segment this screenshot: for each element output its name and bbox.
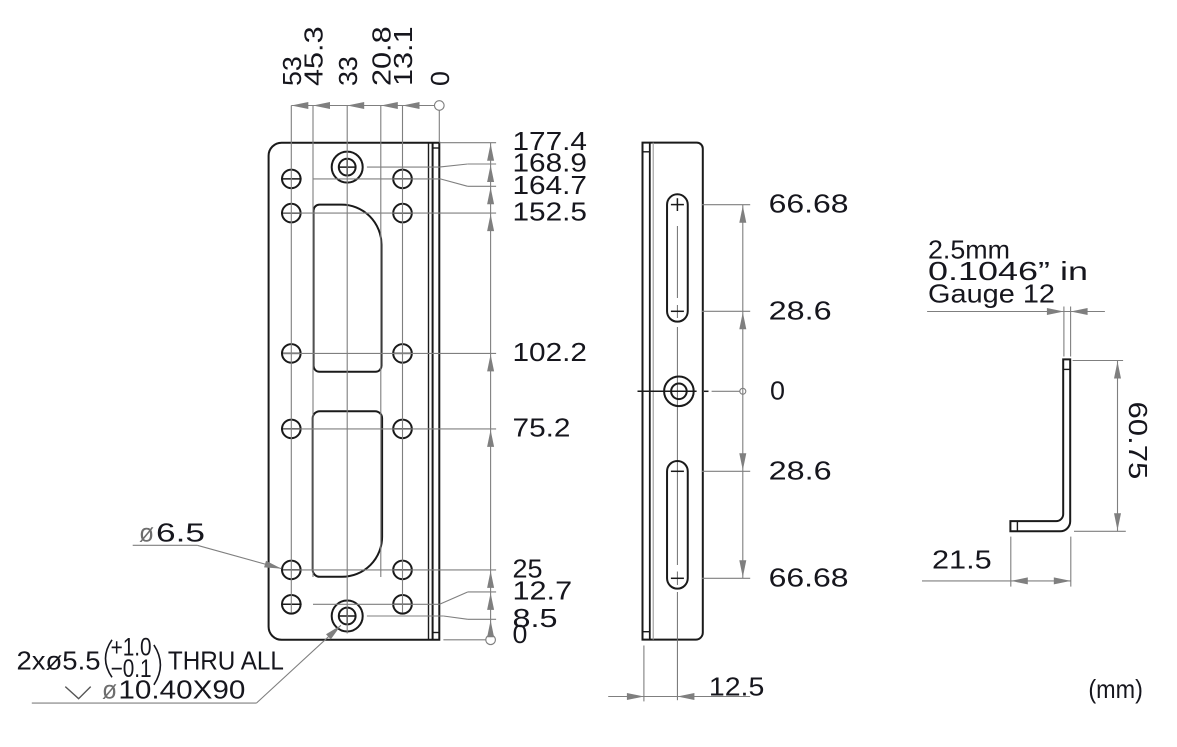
right ordinate origin circle (486, 635, 496, 645)
svg-text:ø: ø (139, 517, 154, 547)
top ordinate arrow at x=313.0 (313, 102, 330, 109)
svg-text:13.1: 13.1 (388, 26, 418, 86)
right ordinate arrow at y=213.1 (487, 214, 494, 231)
front view bend strip bottom cap mark (433, 632, 440, 634)
top ordinate extension line x=291.3 (290, 106, 292, 613)
countersink note leader line (256, 625, 341, 703)
top ordinate extension line x=313.0 (312, 106, 314, 578)
svg-text:10.40X90: 10.40X90 (118, 675, 245, 705)
svg-text:66.68: 66.68 (769, 189, 849, 219)
L-section leg end tick (1016, 521, 1018, 531)
svg-text:2xø5.5: 2xø5.5 (17, 646, 101, 676)
leader note ø6.5 landing line (133, 544, 198, 546)
side ordinate down arrow y=578.3 (739, 560, 746, 577)
side view vertical centerline (676, 226, 678, 298)
thickness left arrow (1047, 308, 1064, 315)
dimension 60.75 bottom extension (1074, 530, 1126, 532)
dimension 60.75 down arrow (1114, 513, 1121, 530)
side view outline (643, 143, 703, 640)
side view flange bottom cap mark (643, 631, 650, 633)
top ordinate arrow at x=380.8 (381, 102, 398, 109)
side view centerline to origin (712, 390, 740, 392)
svg-text:75.2: 75.2 (513, 412, 571, 442)
svg-text:28.6: 28.6 (769, 455, 832, 485)
thickness extension line right (1070, 307, 1072, 357)
side view lower slot (667, 461, 688, 589)
right ordinate arrow at y=164.0 (487, 165, 494, 182)
side view lower slot top cross (671, 470, 684, 472)
side ordinate up arrow y=204.7 (739, 206, 746, 223)
side ordinate up arrow y=311.3 (739, 312, 746, 329)
hole ø6.5 row3 col1 (282, 344, 301, 363)
side ordinate level line y=578.3 (702, 577, 750, 579)
dimension 21.5 left extension (1010, 537, 1012, 587)
hole ø6.5 row1 col2 (393, 170, 412, 189)
svg-text:66.68: 66.68 (769, 562, 849, 592)
hole ø6.5 row3 col2 (393, 344, 412, 363)
row line 8.5 (367, 615, 444, 617)
L-section outline (1010, 359, 1070, 531)
dimension 12.5 extension line (643, 646, 645, 702)
row line 25 (283, 569, 496, 571)
dimension 21.5 left arrow (1011, 577, 1028, 584)
dimension 60.75 top extension (1073, 360, 1124, 362)
svg-text:33: 33 (333, 56, 363, 86)
L-section top cap mark (1063, 368, 1070, 370)
side ordinate level line y=204.7 (702, 204, 750, 206)
countersink symbol (65, 687, 90, 699)
side ordinate dimension line (742, 205, 744, 579)
side view bend tangent line (652, 143, 654, 640)
right ordinate arrow at y=186.3 (487, 187, 494, 204)
right ordinate arrow at y=569.9 (487, 571, 494, 588)
side view lower slot bottom cross (671, 577, 684, 579)
side view center hole horizontal centerline (638, 390, 697, 392)
row line 102.2 (283, 352, 496, 354)
hole ø6.5 row4 col1 (282, 420, 301, 439)
thickness dimension line (927, 311, 1105, 313)
front view bend line (432, 143, 434, 640)
svg-text:THRU ALL: THRU ALL (168, 646, 284, 676)
hole ø6.5 row5 col1 (282, 561, 301, 580)
side view centerline dash (704, 390, 709, 392)
hole ø6.5 row6 col1 (282, 595, 301, 614)
top ordinate dimension line (291, 105, 434, 107)
svg-text:60.75: 60.75 (1123, 402, 1153, 480)
svg-text:102.2: 102.2 (513, 337, 588, 367)
dimension 21.5 line (922, 580, 1071, 582)
side ordinate down arrow y=471.3 (739, 453, 746, 470)
right ordinate arrow at y=591.9 (487, 593, 494, 610)
side view flange inner line (649, 143, 651, 640)
svg-text:45.3: 45.3 (299, 26, 329, 86)
side view upper slot top cross (671, 204, 684, 206)
svg-text:ø: ø (102, 675, 117, 705)
top ordinate origin circle (435, 101, 445, 111)
side ordinate level line y=311.3 (702, 310, 750, 312)
svg-text:12.5: 12.5 (709, 671, 764, 701)
svg-text:164.7: 164.7 (513, 170, 588, 200)
dimension 21.5 right arrow (1054, 577, 1071, 584)
countersunk hole ø5.5/ø10.4 top (332, 152, 363, 183)
svg-text:21.5: 21.5 (932, 545, 992, 575)
countersunk hole ø5.5/ø10.4 bottom (332, 601, 363, 632)
dimension 21.5 right extension (1070, 537, 1072, 587)
tolerance open paren (106, 640, 113, 678)
right ordinate arrow at y=428.9 (487, 430, 494, 447)
hole ø6.5 row2 col1 (282, 204, 301, 223)
right ordinate arrow at y=619.3 (487, 620, 494, 637)
svg-text:152.5: 152.5 (513, 197, 588, 227)
leader note ø6.5 leader line (197, 545, 281, 568)
hole ø6.5 row6 col2 (393, 595, 412, 614)
side view flange top cap mark (643, 151, 650, 153)
side ordinate origin circle (740, 388, 746, 394)
row line 75.2 (283, 428, 496, 430)
dimension 60.75 up arrow (1114, 362, 1121, 379)
top ordinate origin extension line (438, 110, 440, 142)
svg-text:6.5: 6.5 (156, 517, 205, 547)
svg-text:(mm): (mm) (1088, 674, 1143, 704)
row line 168.9 (367, 166, 439, 168)
side view upper slot (667, 194, 688, 321)
dimension 12.5 left arrow (627, 693, 644, 700)
dimension 12.5 right arrow (677, 693, 694, 700)
front view plate outline (269, 143, 440, 640)
front view lower slot cutout (313, 411, 382, 577)
svg-text:28.6: 28.6 (769, 295, 832, 325)
countersink note landing line (32, 702, 257, 704)
svg-text:0: 0 (513, 619, 528, 649)
thickness right arrow (1071, 308, 1088, 315)
top ordinate extension line x=380.8 (380, 106, 382, 578)
front view bend tangent line (428, 143, 430, 640)
svg-text:0: 0 (770, 375, 785, 405)
row line 177.4 extension (439, 142, 496, 144)
hole ø6.5 row5 col2 (393, 561, 412, 580)
top ordinate extension line x=402.5 (402, 106, 404, 613)
top ordinate arrow at x=347.2 (347, 102, 364, 109)
side view upper slot bottom cross (671, 310, 684, 312)
front view upper slot cutout (314, 205, 382, 372)
right ordinate dimension line (490, 143, 492, 635)
dimension 60.75 line (1117, 361, 1119, 532)
side ordinate level line y=471.3 (702, 470, 750, 472)
side view center hole (664, 377, 694, 407)
countersink note arrowhead (326, 625, 341, 639)
hole ø6.5 row1 col1 (282, 170, 301, 189)
row line 152.5 (283, 212, 496, 214)
hole ø6.5 row2 col2 (393, 204, 412, 223)
tolerance close paren (154, 645, 161, 685)
front view bend strip top cap mark (433, 147, 440, 149)
row line 164.7 (314, 178, 441, 180)
svg-text:0: 0 (425, 71, 455, 86)
row line 12.7 (313, 603, 440, 605)
top ordinate arrow at x=402.5 (403, 102, 420, 109)
right ordinate arrow at y=353.4 (487, 354, 494, 371)
top ordinate extension line x=347.2 (346, 106, 348, 634)
top ordinate arrow at x=291.3 (291, 102, 308, 109)
dimension 12.5 line (608, 696, 750, 698)
thickness extension line left (1063, 307, 1065, 357)
svg-text:Gauge 12: Gauge 12 (928, 279, 1055, 309)
right ordinate arrow at y=142.7 (487, 144, 494, 161)
hole ø6.5 row4 col2 (393, 420, 412, 439)
svg-text:12.7: 12.7 (513, 575, 573, 605)
leader note ø6.5 arrowhead (264, 561, 281, 569)
row line 0 extension (443, 639, 485, 641)
